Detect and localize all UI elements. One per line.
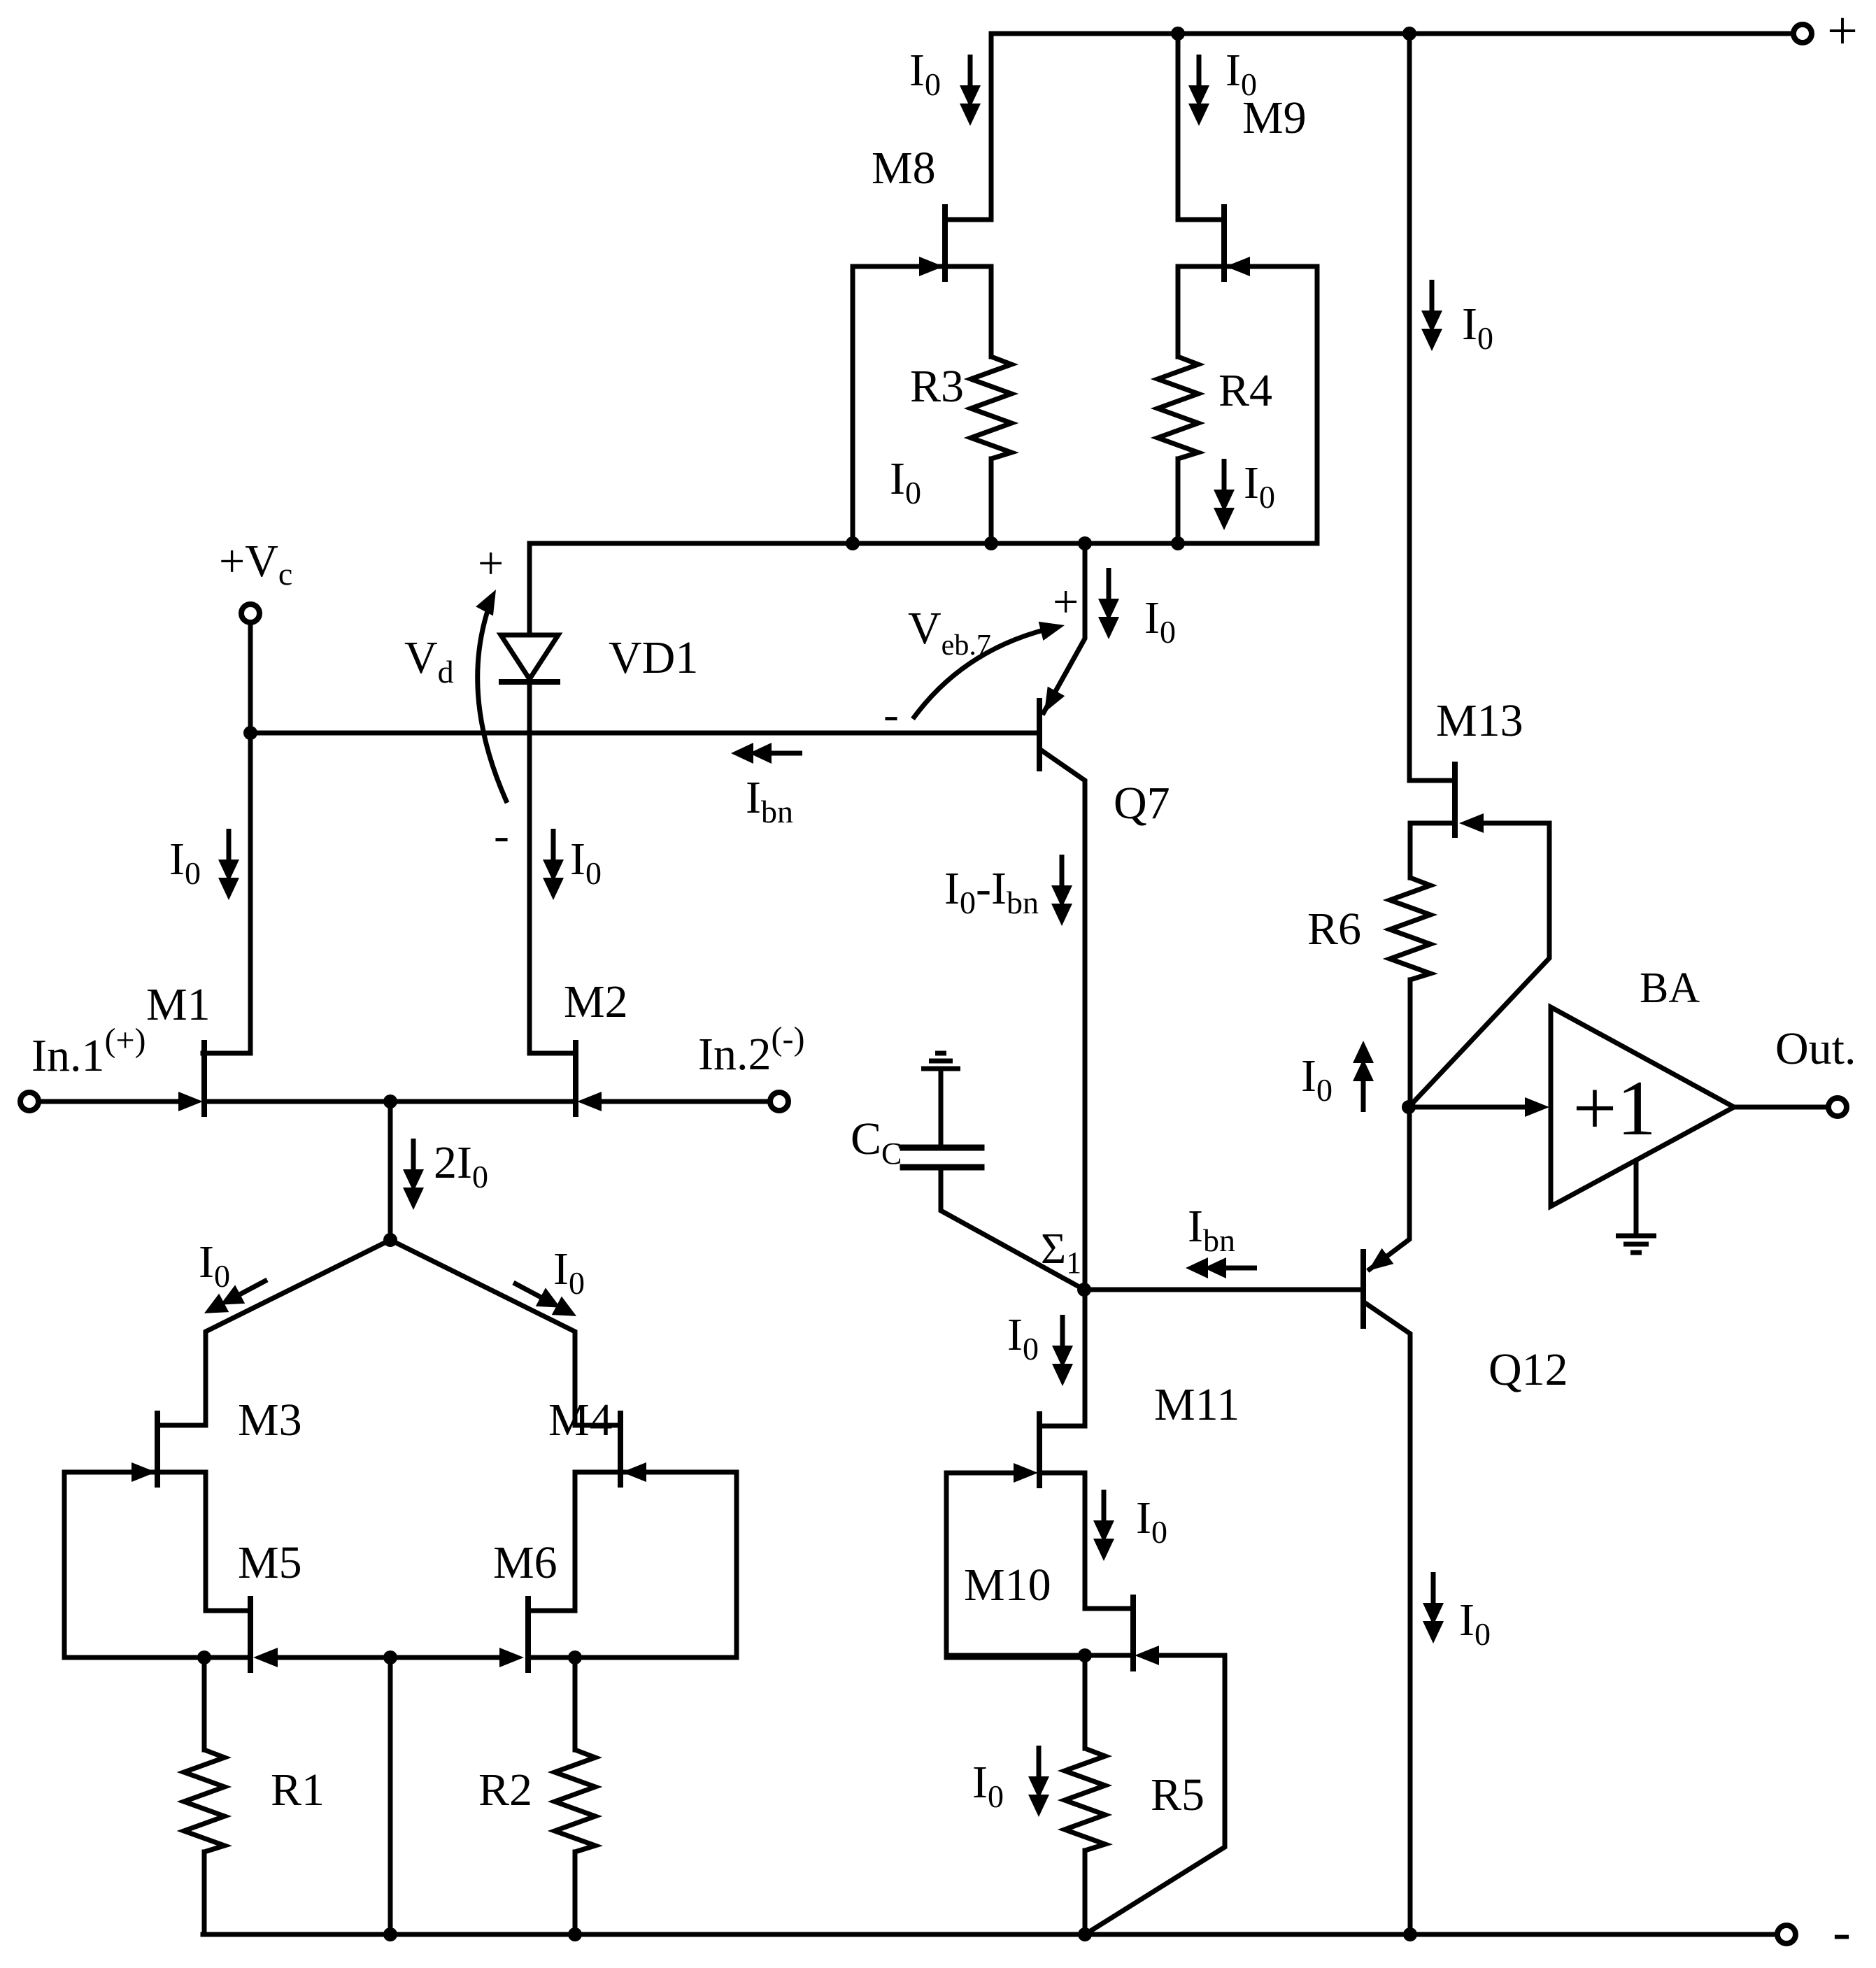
wire +V rail [991,31,1793,36]
terminal In.1 [20,1092,38,1111]
junction R1 [197,1650,211,1664]
wire M10 gate loop [1085,1655,1225,1934]
current arrow [731,743,802,764]
current arrow [1353,1041,1374,1112]
svg-text:M11: M11 [1154,1379,1239,1430]
wire BA ground stem [1634,1160,1639,1236]
current arrow [1098,568,1119,639]
wire R1 top [202,1657,207,1750]
arrowhead [253,1648,278,1667]
wire Sigma1 to Q12 base [1085,1288,1360,1292]
current arrow [543,829,564,900]
junction -rail R5 [1078,1927,1092,1941]
junction sources [383,1094,397,1108]
wire R1 bottom [202,1852,207,1934]
wire R6 bottom [1408,980,1413,1107]
wire M10 source bus [946,1653,1130,1658]
arrowhead [132,1462,156,1482]
wire R3 bottom [989,459,994,543]
junction -rail 2 [568,1927,582,1941]
wire M6 gate [390,1655,499,1660]
junction Q7 emitter [1078,536,1092,550]
node BA input [1402,1100,1416,1114]
transistor M11 [1037,1411,1042,1488]
transistor M13 [1452,762,1458,838]
current arrow [199,1271,272,1322]
terminal +Vc [241,604,260,622]
wire Cc to Sigma1 [941,1170,1084,1290]
terminal In.2 [770,1092,788,1111]
wire M4 gate loop [575,1472,737,1657]
ground (BA) [1616,1234,1656,1239]
terminal Out [1828,1098,1847,1116]
svg-text:-: - [494,810,509,861]
wire R2 bottom [573,1852,578,1934]
transistor M1 [201,1040,207,1117]
resistor R5 [1065,1748,1105,1851]
wire M5 gate [280,1655,390,1660]
wire Q12 collector [1366,1304,1410,1934]
wire In.1 gate [38,1099,178,1104]
svg-text:+: + [1053,576,1079,627]
svg-text:+: + [1827,0,1858,61]
wire M1 drain [203,733,250,1053]
junction R2 [568,1650,582,1664]
arrowhead [1459,813,1484,833]
wire M3 gate loop [64,1472,204,1657]
junction tail node [383,1233,397,1247]
resistor R2 [555,1750,595,1852]
svg-text:-: - [883,689,899,740]
wire -V rail [203,1932,1777,1937]
wire M3 source to M5 drain [160,1472,248,1611]
svg-text:Q7: Q7 [1114,778,1170,829]
wire In.2 gate [602,1099,771,1104]
arrowhead [919,257,944,276]
svg-text:M13: M13 [1436,695,1523,746]
wire VD1 anode [527,543,532,636]
arrowhead [577,1092,602,1111]
svg-text:R2: R2 [478,1764,532,1816]
svg-text:M10: M10 [964,1560,1051,1611]
junction +Vc / base line [243,726,257,740]
svg-text:BA: BA [1640,964,1700,1012]
junction M9 drain / rail [1171,27,1185,41]
wire M8 drain [945,34,991,220]
wire +Vc stem [248,622,253,733]
Vd arc [478,595,507,803]
svg-text:+1: +1 [1572,1065,1656,1152]
terminal - [1777,1925,1796,1944]
wire M11 gate loop [946,1473,1085,1657]
transistor Q7 [1037,698,1042,771]
junction R5 top [1078,1648,1092,1662]
current arrow [1051,855,1072,926]
wire M4 source to M6 drain [531,1472,618,1611]
svg-text:Out.: Out. [1775,1023,1856,1074]
svg-text:M6: M6 [493,1537,557,1588]
svg-text:M5: M5 [238,1537,302,1588]
arrowhead [178,1092,203,1111]
svg-text:Q12: Q12 [1488,1344,1568,1395]
wire R2 top [573,1657,578,1750]
wire R5 bottom [1083,1851,1088,1934]
wire M13 drain [1409,34,1452,780]
wire M9 drain [1178,34,1224,220]
wire R5 top [1083,1655,1088,1748]
svg-text:M4: M4 [548,1395,613,1446]
terminal + [1793,24,1812,43]
svg-text:M8: M8 [872,143,936,194]
transistor M10 [1130,1595,1136,1671]
svg-text:M3: M3 [238,1395,302,1446]
transistor M2 [573,1040,578,1117]
wire tail 2I0 [388,1101,393,1240]
svg-text:+: + [478,538,504,589]
junction M8 gate [846,536,860,550]
wire M8 gate loop [853,266,945,543]
current arrow [218,829,239,900]
resistor R6 [1390,878,1430,980]
wire tail to M3 drain [160,1240,390,1425]
wire M1/M2 sources [207,1099,573,1104]
svg-text:R3: R3 [910,361,964,412]
transistor M4 [618,1411,623,1488]
wire Cc ground stem [939,1069,944,1145]
junction R4 [1171,536,1185,550]
arrowhead [1363,1248,1394,1278]
wire M9 gate loop [1224,266,1317,543]
svg-text:R1: R1 [271,1764,325,1816]
svg-text:M9: M9 [1242,92,1307,143]
transistor M9 [1221,204,1227,282]
wire M13 gate loop [1409,823,1549,1107]
junction M13 drain / rail [1402,27,1416,41]
wire M13 source to R6 [1410,823,1452,878]
current arrow [1186,1257,1257,1278]
current arrow [1052,1315,1073,1386]
wire M8 source to R3 [945,266,991,357]
resistor R4 [1158,357,1198,459]
current arrow [960,55,981,126]
junction -rail Q12 [1403,1927,1417,1941]
current arrow [509,1274,581,1325]
current arrow [1421,280,1442,351]
arrowhead [1525,1097,1549,1117]
transistor M3 [155,1411,160,1488]
wire tail to M4 drain [390,1240,618,1425]
arrowhead [1014,1463,1038,1483]
arrowhead [1036,687,1065,718]
buffer BA [1551,1007,1734,1206]
junction gate bus center [383,1650,397,1664]
transistor M5 [248,1596,253,1673]
wire node line [530,541,1317,546]
wire R4 bottom [1176,459,1181,543]
node Sigma1 [1077,1283,1091,1297]
resistor R1 [184,1750,225,1852]
wire M6 source [531,1655,575,1660]
diode VD1 [501,635,558,679]
junction R3 [984,536,998,550]
current arrow [1188,55,1209,126]
current arrow [1028,1746,1049,1817]
wire Q7 collector [1042,750,1085,1290]
svg-text:-: - [1833,1901,1851,1962]
svg-text:VD1: VD1 [609,632,698,683]
wire Q12 emitter [1370,1107,1409,1269]
wire M9 source to R4 [1178,266,1224,357]
wire center to -V rail [388,1657,393,1934]
svg-text:R6: R6 [1307,904,1361,955]
capacitor Cc plate [903,1145,981,1151]
wire M11 drain [1042,1290,1085,1426]
wire Q7 base line [250,731,1037,736]
arrowhead [499,1648,524,1667]
arrowhead [1225,257,1250,276]
current arrow [403,1139,424,1210]
current arrow [1423,1572,1444,1643]
ground (Cc) [921,1067,960,1071]
wire M5 source [204,1655,248,1660]
transistor Q12 [1360,1249,1366,1329]
wire BA input [1409,1105,1526,1110]
wire M11 source to M10 drain [1042,1473,1130,1609]
wire Q7 emitter [1044,543,1085,713]
Veb.7 arc [913,627,1058,719]
transistor M8 [942,204,948,282]
arrowhead [1135,1646,1159,1665]
svg-text:M2: M2 [564,976,628,1027]
junction -rail 1 [383,1927,397,1941]
capacitor Cc plate [903,1164,981,1171]
svg-text:M1: M1 [146,979,211,1030]
wire BA output [1734,1105,1828,1110]
transistor M6 [525,1596,531,1673]
current arrow [1214,459,1235,530]
svg-text:R5: R5 [1151,1769,1205,1820]
current arrow [1093,1490,1114,1561]
wire VD1 cathode to M2 drain [530,680,573,1053]
arrowhead [622,1462,646,1482]
resistor R3 [971,357,1011,459]
svg-text:R4: R4 [1218,365,1272,416]
